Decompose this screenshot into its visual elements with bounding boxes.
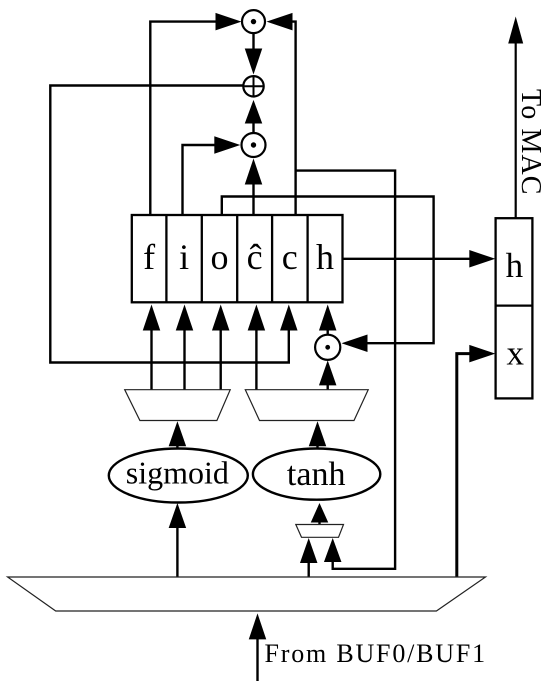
svg-text:x: x bbox=[507, 334, 525, 373]
svg-text:c: c bbox=[282, 237, 298, 277]
svg-text:o: o bbox=[211, 237, 229, 277]
svg-text:i: i bbox=[179, 237, 189, 277]
svg-text:f: f bbox=[143, 237, 155, 277]
svg-text:h: h bbox=[316, 237, 334, 277]
svg-text:To MAC: To MAC bbox=[515, 89, 546, 196]
svg-text:tanh: tanh bbox=[287, 456, 346, 493]
svg-text:ĉ: ĉ bbox=[247, 237, 263, 277]
svg-text:h: h bbox=[506, 246, 524, 285]
svg-text:From BUF0/BUF1: From BUF0/BUF1 bbox=[265, 639, 487, 668]
svg-text:sigmoid: sigmoid bbox=[126, 454, 229, 490]
